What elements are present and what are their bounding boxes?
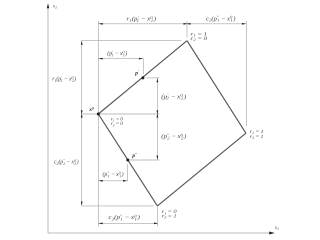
node p'' [126, 159, 129, 162]
extension line top vertex vertical [186, 21, 188, 37]
dimension c2(p1-x1) top-right [187, 23, 246, 25]
svg-text:r2 = 1: r2 = 1 [162, 214, 177, 220]
dimension c2(p2-x2) left-lower [81, 114, 83, 206]
x2 axis [47, 6, 49, 233]
extension line bottom vertex vertical [156, 206, 158, 226]
svg-text:(p″1 − x01): (p″1 − x01) [103, 170, 124, 178]
svg-text:r2 = 1: r2 = 1 [250, 134, 264, 140]
node p' [141, 76, 144, 79]
dimension (p2''-x2) centre-lower [156, 114, 158, 160]
x1 axis [48, 232, 273, 234]
dimension (p2'-x2) centre-upper [156, 78, 158, 114]
svg-text:r2 = 0: r2 = 0 [111, 121, 124, 127]
svg-text:r1(p′2 − x02): r1(p′2 − x02) [52, 75, 76, 83]
dimension c2(p1-x1) bottom [98, 222, 157, 224]
svg-text:r1(p′1 − x01): r1(p′1 − x01) [127, 15, 157, 23]
node x0 [97, 113, 100, 116]
extension line bottom vertex horizontal [82, 205, 154, 207]
svg-text:c2(p″1 − x01): c2(p″1 − x01) [108, 213, 140, 221]
extension line top vertex horizontal [82, 39, 182, 41]
square edge right-bottom [157, 133, 246, 206]
extension line x0 horizontal [82, 113, 160, 115]
square edge bottom-left [98, 114, 157, 206]
svg-text:c2(p″2 − x02): c2(p″2 − x02) [54, 158, 79, 166]
extension line x0 vertical [97, 21, 99, 227]
dimension r1(p1-x1) top-left [98, 23, 187, 25]
svg-text:(p′1 − x01): (p′1 − x01) [107, 49, 127, 57]
dimension r1(p2-x2) left-upper [81, 40, 83, 114]
dimension (p1''-x1) mid-lower [98, 180, 127, 182]
extension line p' vertical [142, 59, 144, 74]
extension line p' horizontal [146, 77, 159, 79]
svg-text:c2(p″1 − x01): c2(p″1 − x01) [206, 15, 236, 23]
extension line p'' horizontal [130, 159, 160, 161]
square edge left-top [98, 41, 187, 114]
dimension (p1'-x1) mid-upper [98, 58, 143, 60]
svg-text:r2 = 0: r2 = 0 [190, 36, 208, 42]
extension line p'' vertical [127, 164, 129, 181]
svg-text:(p′2 − x02): (p′2 − x02) [161, 93, 186, 101]
extension line right vertex vertical [245, 21, 247, 126]
square edge top-right [187, 41, 246, 134]
svg-text:(p″2 − x02): (p″2 − x02) [161, 132, 186, 140]
